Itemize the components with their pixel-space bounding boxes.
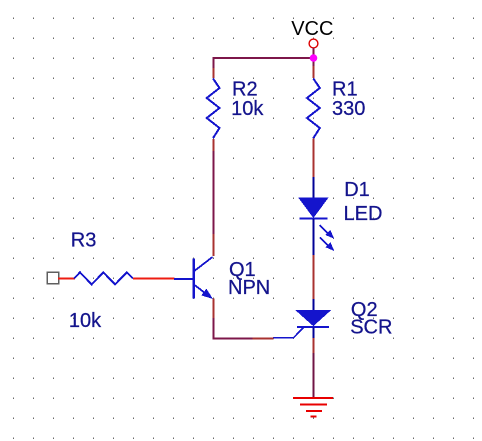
value LED of D1: [344, 203, 383, 225]
junction dot at VCC node: [310, 54, 318, 62]
LED D1 anode lead: [313, 177, 315, 198]
wire R2 top pin stub: [213, 58, 215, 78]
wire R1 top pin stub: [313, 58, 315, 78]
wire R3 to Q1 base: [133, 278, 175, 280]
value 10k of R2: [231, 98, 264, 120]
label D1: [344, 179, 370, 201]
LED light arrow 1: [320, 225, 334, 239]
svg-text:10k: 10k: [69, 310, 102, 332]
SCR Q2 cathode bar: [297, 326, 329, 328]
SCR Q2 cathode lead: [313, 328, 315, 339]
wire LED to SCR anode: [313, 255, 315, 299]
svg-text:LED: LED: [344, 203, 383, 225]
svg-text:10k: 10k: [231, 98, 264, 120]
label Q1: [229, 259, 256, 281]
transistor Q1 base bar: [193, 259, 195, 299]
ground symbol: [293, 397, 333, 418]
value 330 of R1: [332, 98, 365, 120]
wire Q1 emitter down: [212, 299, 214, 340]
label R1: [332, 79, 358, 101]
node VCC label: [291, 18, 333, 40]
value 10k of R3: [69, 310, 102, 332]
value NPN of Q1: [228, 277, 270, 299]
wire terminal to R3: [58, 278, 75, 280]
wire R2 bottom pin and wire to Q1 collector: [213, 139, 215, 256]
svg-text:330: 330: [332, 98, 365, 120]
wire top horizontal from R2 to VCC node: [213, 57, 315, 59]
LED D1 cathode bar: [300, 217, 328, 219]
svg-text:NPN: NPN: [228, 277, 270, 299]
svg-text:R3: R3: [71, 229, 97, 251]
label Q2: [351, 299, 378, 321]
LED D1 triangle: [299, 198, 327, 217]
label R3: [71, 229, 97, 251]
SCR Q2 anode lead: [313, 299, 315, 311]
svg-text:SCR: SCR: [350, 317, 392, 339]
SCR Q2 triangle: [297, 311, 331, 326]
transistor Q1 base lead: [174, 278, 193, 280]
wire Q1 emitter to SCR gate: [213, 337, 274, 339]
VCC power terminal circle: [309, 39, 318, 48]
svg-text:D1: D1: [344, 179, 370, 201]
resistor R1: [307, 79, 320, 139]
terminal pad (input): [47, 272, 58, 283]
SCR Q2 gate line: [273, 327, 304, 338]
transistor Q1 collector line: [193, 257, 213, 272]
LED D1 cathode lead: [313, 219, 315, 255]
wire SCR cathode to ground: [313, 338, 315, 398]
resistor R2: [207, 79, 220, 139]
wire R1 bottom pin to LED anode: [313, 139, 315, 179]
wire VCC stub: [313, 48, 315, 58]
resistor R3: [74, 272, 133, 284]
LED light arrow 2: [320, 237, 335, 251]
value SCR of Q2: [350, 317, 392, 339]
transistor Q1 emitter line with arrow: [194, 285, 213, 299]
label R2: [232, 79, 258, 101]
svg-text:VCC: VCC: [291, 18, 333, 40]
